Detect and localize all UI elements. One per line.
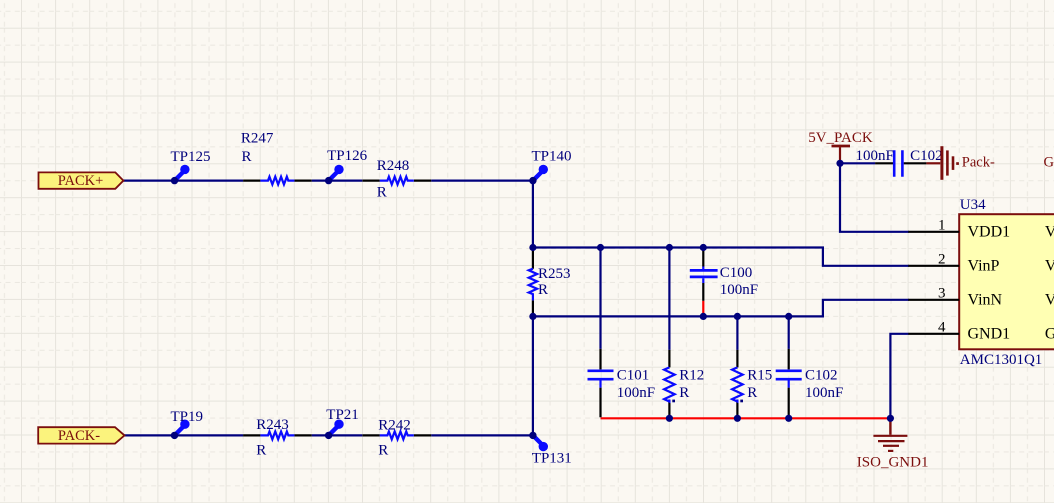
svg-text:R: R — [747, 385, 757, 401]
svg-text:VinN: VinN — [968, 292, 1003, 309]
svg-text:5V_PACK: 5V_PACK — [808, 130, 873, 146]
svg-text:R: R — [679, 385, 689, 401]
svg-text:Pack-: Pack- — [962, 155, 995, 171]
resistor R248 — [362, 158, 431, 201]
right column pin names (clipped) — [1045, 224, 1054, 343]
junction red R15 — [734, 415, 741, 422]
wire bus1 to pin2 VinP — [533, 248, 909, 266]
svg-text:GN: GN — [1044, 154, 1054, 170]
svg-text:GND1: GND1 — [968, 326, 1011, 343]
junction 5V_PACK — [836, 160, 843, 167]
junction bus2 trunk — [529, 313, 536, 320]
junction bus1 C100 — [700, 244, 707, 251]
IC U34 AMC1301Q1 — [959, 197, 1054, 368]
svg-text:TP125: TP125 — [171, 149, 211, 165]
wire bus2 to pin3 VinN — [533, 300, 909, 317]
wire 5V_PACK down to pin1 VDD1 — [840, 163, 909, 232]
junction bus2 R15 — [734, 313, 741, 320]
junction red ISO_GND1 — [887, 415, 894, 422]
capacitor C101 — [588, 349, 656, 417]
pin 3 VinN — [908, 286, 1002, 309]
ground ISO_GND1 — [857, 419, 929, 470]
resistor R247 — [241, 131, 312, 185]
resistor R12 — [664, 350, 704, 417]
svg-text:R: R — [242, 149, 252, 165]
wire pin4 GND1 down to ISO_GND1 — [890, 334, 908, 417]
wire trunk bus2 down to PACK- row — [532, 316, 534, 435]
junction red C102 — [785, 415, 792, 422]
svg-text:TP19: TP19 — [171, 409, 204, 425]
svg-text:TP21: TP21 — [326, 407, 359, 423]
test point TP125 — [171, 149, 211, 184]
svg-text:C102: C102 — [805, 368, 838, 384]
wire 5V_PACK to C102 top — [840, 162, 875, 164]
wire R15 branch vertical — [736, 316, 738, 350]
svg-text:PACK-: PACK- — [58, 428, 100, 444]
pin 4 GND1 — [908, 320, 1010, 343]
svg-text:PACK+: PACK+ — [58, 173, 104, 189]
svg-text:R15: R15 — [747, 368, 772, 384]
test point TP131 — [529, 432, 572, 467]
junction bus1 C101 — [597, 244, 604, 251]
resistor R243 — [243, 417, 312, 459]
capacitor C100 — [690, 249, 758, 301]
junction bus2 C100 — [700, 313, 707, 320]
svg-text:C101: C101 — [617, 368, 650, 384]
svg-text:R: R — [538, 282, 548, 298]
power port 5V_PACK — [808, 130, 873, 162]
port PACK+ — [39, 172, 124, 189]
wire R247 to R248 — [312, 180, 363, 182]
svg-text:R248: R248 — [377, 158, 410, 174]
wire PACK+ to R247 — [123, 180, 243, 182]
junction red R12 — [666, 415, 673, 422]
test point TP140 — [529, 149, 571, 185]
capacitor C102 (top, decoupling) — [856, 148, 943, 177]
pin 2 VinP — [908, 252, 999, 275]
svg-text:C102: C102 — [910, 148, 943, 164]
red net wire ISO ground bus — [601, 417, 891, 419]
test point TP19 — [171, 409, 204, 439]
svg-text:R: R — [256, 443, 266, 459]
svg-text:VD: VD — [1045, 224, 1054, 241]
wire R248 to TP140 corner and trunk down to bus1 — [431, 181, 533, 249]
svg-text:TP126: TP126 — [327, 148, 368, 164]
svg-text:1: 1 — [938, 218, 946, 234]
svg-text:R253: R253 — [538, 266, 571, 282]
svg-text:C100: C100 — [720, 265, 753, 281]
svg-text:V: V — [1045, 258, 1054, 275]
svg-text:V: V — [1045, 292, 1054, 309]
wire R242 to TP131 corner — [431, 434, 533, 436]
svg-text:VinP: VinP — [968, 258, 1000, 275]
svg-text:AMC1301Q1: AMC1301Q1 — [960, 352, 1043, 368]
wire C101 branch vertical — [599, 248, 601, 349]
svg-text:VDD1: VDD1 — [968, 224, 1011, 241]
svg-text:R242: R242 — [378, 418, 411, 434]
wire C102 bottom branch vertical — [788, 316, 790, 349]
svg-text:U34: U34 — [960, 197, 986, 213]
svg-text:100nF: 100nF — [856, 148, 894, 164]
wire PACK- to R243 — [124, 434, 243, 436]
junction bus2 C102 — [785, 313, 792, 320]
junction bus1 R12 — [666, 244, 673, 251]
port PACK- — [38, 427, 124, 444]
svg-text:100nF: 100nF — [720, 282, 758, 298]
svg-text:3: 3 — [938, 286, 946, 302]
svg-text:100nF: 100nF — [805, 385, 843, 401]
svg-text:R243: R243 — [256, 417, 289, 433]
power port GND (cut off at right edge) — [1044, 154, 1054, 170]
resistor R242 — [362, 418, 431, 459]
svg-text:2: 2 — [938, 252, 946, 268]
wire R243 to R242 — [312, 434, 363, 436]
power port Pack- (bar symbol) — [926, 146, 995, 180]
red wire segment C100 bottom lead — [702, 301, 704, 316]
svg-text:R: R — [378, 443, 388, 459]
resistor R15 — [732, 350, 772, 417]
svg-text:R247: R247 — [241, 131, 274, 147]
svg-text:ISO_GND1: ISO_GND1 — [857, 455, 929, 471]
svg-text:R: R — [377, 185, 387, 201]
pin 1 VDD1 — [908, 218, 1010, 241]
resistor R253 — [529, 249, 571, 315]
svg-text:R12: R12 — [679, 368, 704, 384]
junction bus1 trunk — [529, 244, 536, 251]
svg-text:TP140: TP140 — [532, 149, 572, 165]
svg-text:100nF: 100nF — [617, 385, 655, 401]
svg-text:TP131: TP131 — [532, 451, 572, 467]
svg-text:4: 4 — [938, 320, 946, 336]
test point TP126 — [325, 148, 368, 184]
svg-text:G: G — [1045, 326, 1054, 343]
wire R12 branch vertical — [668, 248, 670, 350]
test point TP21 — [325, 407, 359, 439]
capacitor C102 (bottom) — [776, 349, 844, 417]
